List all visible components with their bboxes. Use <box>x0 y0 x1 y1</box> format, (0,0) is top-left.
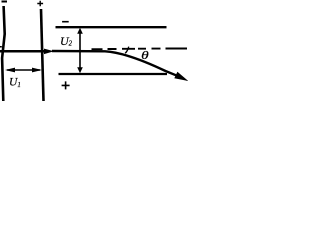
plus polarity mark of plate P2 <box>37 1 43 7</box>
plate P1 left (negative, accelerating gap) <box>2 6 5 101</box>
svg-text:θ: θ <box>141 48 149 62</box>
svg-text:U2: U2 <box>60 34 73 48</box>
minus polarity mark of top plate <box>62 21 69 23</box>
beam axis wire with arrow <box>0 50 45 53</box>
speck at left edge <box>0 46 2 48</box>
deflecting plate top (negative) <box>56 26 167 28</box>
dashed undeflected path <box>92 48 188 51</box>
gap double arrow for U1 <box>7 69 40 71</box>
minus polarity mark of plate P1 <box>2 1 8 3</box>
U2 vertical double arrow <box>79 31 81 68</box>
plus polarity mark of bottom plate <box>62 81 70 89</box>
deflecting plate bottom (positive) <box>59 73 168 75</box>
angle arc <box>125 47 129 54</box>
svg-text:U1: U1 <box>9 77 21 89</box>
electron trajectory curve <box>52 51 177 76</box>
trajectory arrowhead <box>174 72 188 81</box>
plate P2 right (positive, accelerating gap) <box>41 9 44 101</box>
